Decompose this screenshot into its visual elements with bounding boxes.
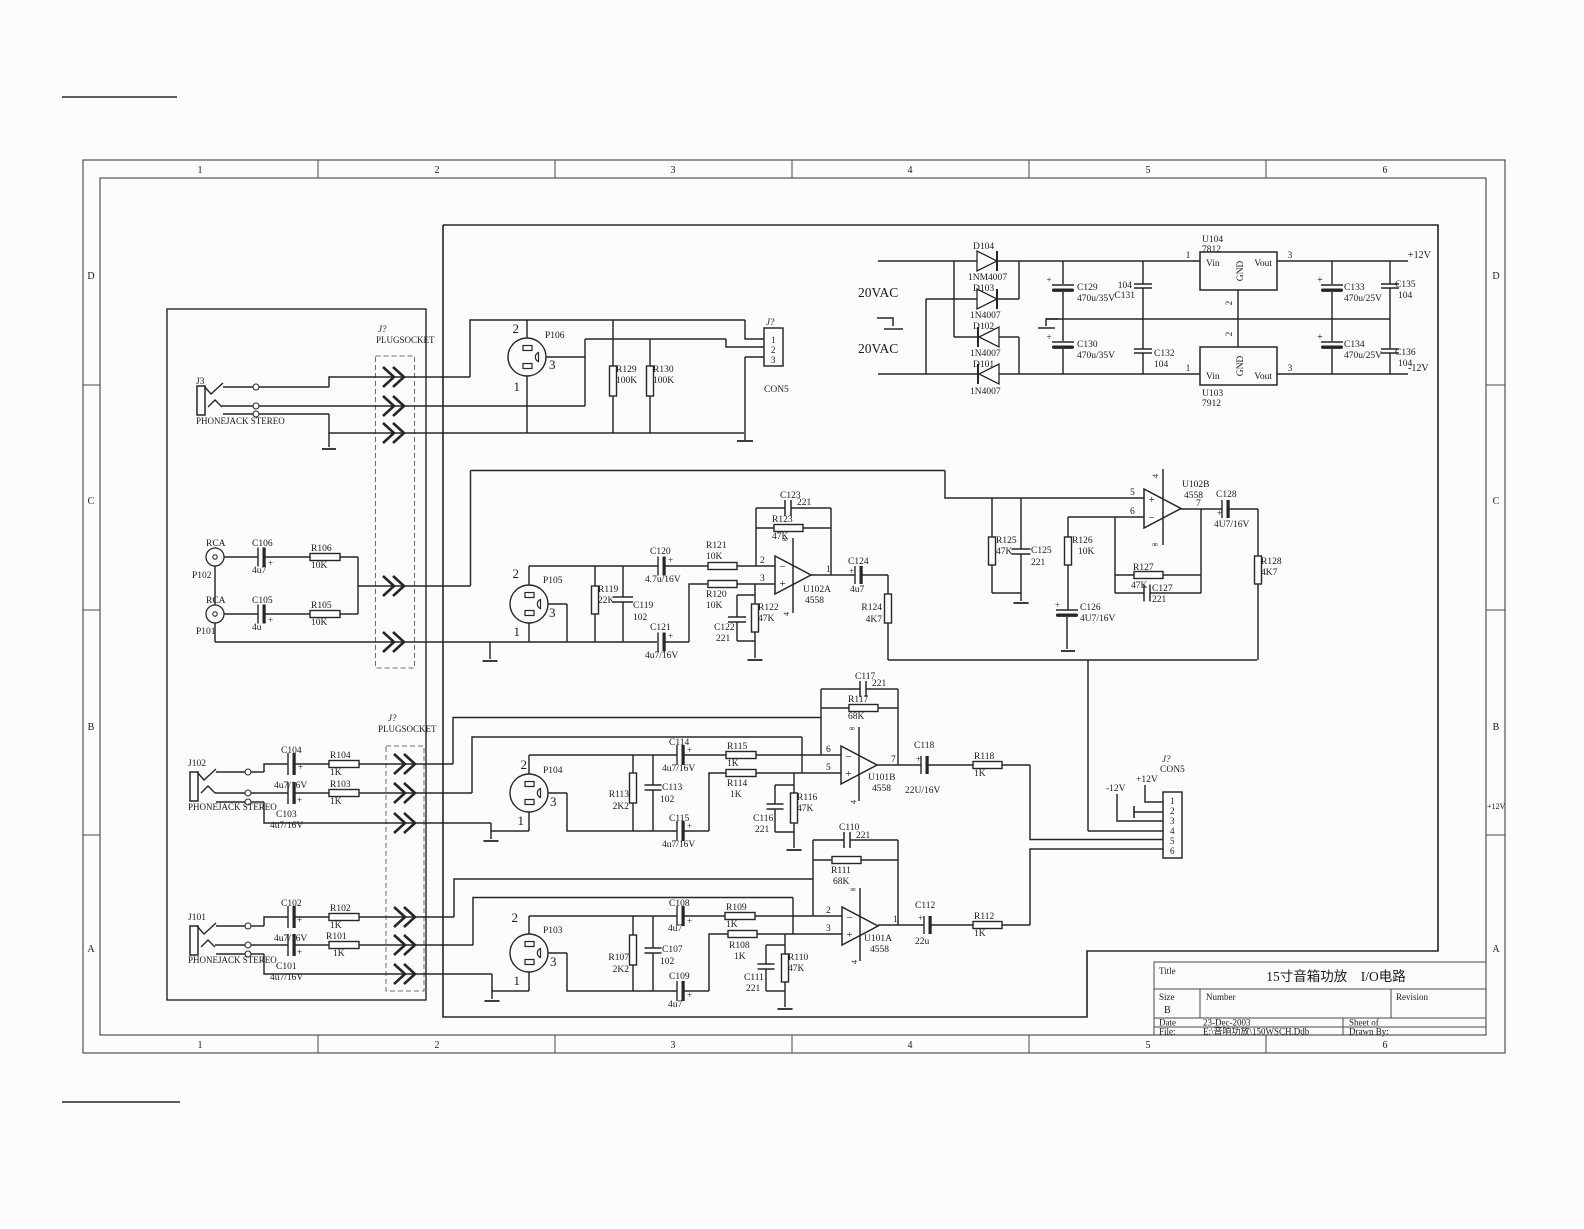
svg-text:−: −: [1149, 512, 1155, 524]
title block column divider sheet: [1342, 1018, 1344, 1035]
wire C101 to R101: [294, 944, 329, 946]
resistor R118: [973, 762, 1002, 769]
capacitor C112: [923, 916, 925, 934]
svg-text:D102: D102: [973, 322, 994, 332]
wire R109 to U101A pin2: [755, 915, 842, 917]
svg-text:104: 104: [1398, 359, 1413, 369]
svg-text:5: 5: [1146, 165, 1151, 176]
svg-text:1K: 1K: [333, 949, 345, 959]
svg-text:E:\音响功放\150WSCH.Ddb: E:\音响功放\150WSCH.Ddb: [1203, 1026, 1310, 1037]
svg-text:∞: ∞: [850, 885, 856, 894]
svg-text:4K7: 4K7: [866, 615, 883, 625]
wire U102B output down to feedback: [1200, 509, 1202, 593]
svg-text:C: C: [1493, 496, 1500, 507]
svg-text:221: 221: [746, 984, 761, 994]
wire R102 to riser: [359, 916, 454, 918]
scan artifact line bottom-left: [62, 1101, 180, 1103]
capacitor C129: [1062, 261, 1064, 284]
resistor R128: [1255, 556, 1262, 584]
svg-text:U101B: U101B: [868, 773, 895, 783]
svg-text:CON5: CON5: [1160, 765, 1185, 775]
resistor R107: [632, 916, 634, 935]
wire R125 C125 bottoms joined: [992, 592, 1021, 594]
ground below R116: [787, 849, 802, 851]
resistor R125: [991, 498, 993, 537]
svg-text:+: +: [849, 566, 854, 576]
svg-text:15寸音箱功放 I/O电路: 15寸音箱功放 I/O电路: [1266, 968, 1406, 984]
svg-text:10K: 10K: [311, 618, 328, 628]
svg-text:1N4007: 1N4007: [970, 311, 1001, 321]
U102A feedback right vertical: [830, 508, 832, 575]
diode D102: [979, 327, 999, 347]
border column tick: [791, 160, 793, 178]
svg-text:6: 6: [1130, 507, 1135, 517]
J3 ring contact: [208, 400, 222, 407]
resistor R112: [973, 922, 1002, 929]
sheet border outer frame: [83, 160, 1505, 1053]
svg-text:1: 1: [826, 565, 831, 575]
svg-text:R129: R129: [616, 365, 637, 375]
svg-text:R122: R122: [758, 603, 779, 613]
resistor R101: [329, 942, 359, 949]
ground below C125: [1020, 593, 1022, 601]
resistor R130: [649, 339, 651, 366]
wire riser J102 tip to pin6 line: [453, 718, 821, 765]
U101A feedback top line with C110: [813, 839, 844, 841]
wire R103 to riser: [359, 792, 472, 794]
wire C103 to R103: [294, 792, 329, 794]
svg-text:PLUGSOCKET: PLUGSOCKET: [378, 724, 437, 734]
svg-text:D: D: [87, 271, 94, 282]
connector P106 DIN socket: [508, 338, 546, 376]
svg-text:1: 1: [893, 915, 898, 925]
svg-text:1K: 1K: [726, 920, 738, 930]
svg-text:C106: C106: [252, 539, 273, 549]
wire C120 to R121: [664, 565, 708, 567]
svg-text:1K: 1K: [734, 952, 746, 962]
svg-text:R109: R109: [726, 903, 747, 913]
wire J3 tip riser to P106 rail: [470, 320, 745, 377]
resistor R116: [793, 773, 795, 793]
svg-text:47K: 47K: [1131, 581, 1148, 591]
svg-text:C119: C119: [633, 601, 653, 611]
op-amp U101A: [842, 907, 878, 945]
wire C128 to R128: [1228, 508, 1258, 510]
wire D102 branch from top rail: [953, 261, 955, 337]
U101B feedback top line with C117: [821, 688, 860, 690]
svg-text:10K: 10K: [1078, 547, 1095, 557]
wire J102 ring: [215, 792, 245, 794]
svg-text:R111: R111: [831, 866, 851, 876]
svg-text:C129: C129: [1077, 283, 1098, 293]
svg-text:5: 5: [1170, 836, 1175, 846]
wire C112 to R112: [930, 924, 973, 926]
wire P106 pin3: [546, 356, 585, 358]
svg-text:C107: C107: [662, 945, 683, 955]
svg-text:+: +: [268, 558, 273, 568]
svg-text:20VAC: 20VAC: [858, 341, 898, 356]
border column tick: [1265, 160, 1267, 178]
U102A feedback top line with C123: [756, 507, 785, 509]
svg-text:Vout: Vout: [1254, 372, 1272, 382]
wire bottom rail to U103: [999, 373, 1200, 375]
capacitor C120: [657, 557, 659, 576]
svg-text:2: 2: [1224, 332, 1234, 337]
wire mid ground rail: [1046, 318, 1390, 320]
svg-text:2: 2: [771, 345, 776, 355]
svg-text:470u/25V: 470u/25V: [1344, 351, 1382, 361]
svg-text:2: 2: [521, 757, 528, 772]
capacitor C119: [622, 566, 624, 597]
svg-text:1: 1: [514, 973, 521, 988]
svg-text:P106: P106: [545, 331, 565, 341]
J3 tip node circle: [253, 384, 259, 390]
svg-text:4: 4: [1151, 474, 1160, 478]
wire J101 sleeve to P103 pin1: [492, 974, 529, 991]
svg-text:C132: C132: [1154, 349, 1175, 359]
svg-text:+: +: [847, 929, 853, 941]
svg-text:−: −: [780, 561, 786, 573]
connector J102 phonejack body: [190, 772, 198, 801]
svg-text:+: +: [1055, 600, 1060, 610]
svg-text:4K7: 4K7: [1261, 568, 1278, 578]
resistor R105: [310, 611, 340, 618]
capacitor C132: [1142, 319, 1144, 349]
arrow J101 ring plugsocket: [394, 935, 405, 955]
J3 tip contact: [204, 383, 223, 394]
wire P106 pin3 riser: [584, 339, 586, 406]
svg-text:GND: GND: [1236, 261, 1246, 282]
svg-text:C109: C109: [669, 972, 690, 982]
svg-text:4558: 4558: [870, 945, 889, 955]
svg-text:RCA: RCA: [206, 596, 226, 606]
svg-text:C111: C111: [744, 973, 764, 983]
capacitor C124: [854, 566, 856, 584]
svg-text:4: 4: [850, 960, 859, 964]
op-amp U102B: [1144, 489, 1181, 528]
svg-text:J?: J?: [1162, 754, 1171, 764]
wire C108 to R109: [683, 915, 725, 917]
svg-text:221: 221: [755, 825, 770, 835]
svg-text:4: 4: [849, 800, 858, 804]
J101 tip node circle: [245, 923, 251, 929]
svg-text:221: 221: [872, 679, 887, 689]
svg-text:1K: 1K: [974, 769, 986, 779]
svg-text:+: +: [780, 578, 786, 590]
svg-text:RCA: RCA: [206, 539, 226, 549]
svg-text:4u7/16V: 4u7/16V: [662, 840, 695, 850]
svg-text:PHONEJACK STEREO: PHONEJACK STEREO: [196, 416, 285, 426]
svg-text:R117: R117: [848, 695, 868, 705]
wire input rail corner to U102B pin5: [945, 471, 1144, 499]
wire riser J102 ring to pin5 line: [472, 737, 802, 793]
J102 ring contact: [201, 786, 215, 793]
svg-text:C118: C118: [914, 741, 934, 751]
svg-text:1K: 1K: [330, 921, 342, 931]
svg-text:22K: 22K: [598, 596, 615, 606]
svg-text:+: +: [668, 555, 673, 565]
svg-text:1: 1: [1186, 363, 1191, 373]
svg-text:1NM4007: 1NM4007: [968, 273, 1007, 283]
capacitor C113: [652, 755, 654, 785]
svg-text:1: 1: [771, 335, 776, 345]
wire U102B output: [1181, 508, 1222, 510]
svg-text:102: 102: [660, 795, 675, 805]
wire CON5 pin2 stub: [1134, 811, 1163, 813]
svg-text:4u7: 4u7: [850, 585, 865, 595]
svg-text:C113: C113: [662, 783, 682, 793]
svg-text:R124: R124: [861, 603, 882, 613]
svg-text:6: 6: [1383, 165, 1388, 176]
resistor R124: [885, 594, 892, 623]
J102 sleeve node circle: [245, 799, 251, 805]
svg-text:Size: Size: [1159, 992, 1175, 1002]
svg-text:R128: R128: [1261, 557, 1282, 567]
wire output rail down to CON5 pin4: [1087, 660, 1089, 831]
resistor R115: [726, 752, 756, 759]
wire R120 to U102A pin3: [737, 583, 775, 585]
wire AC bottom rail left: [878, 373, 978, 375]
capacitor C133: [1331, 261, 1333, 284]
svg-text:Vin: Vin: [1206, 259, 1220, 269]
svg-text:3: 3: [671, 165, 676, 176]
resistor R102: [329, 914, 359, 921]
scan artifact line top-left: [62, 96, 177, 98]
svg-text:5: 5: [1130, 488, 1135, 498]
connector J3 phonejack body: [197, 386, 205, 415]
svg-text:D101: D101: [973, 360, 994, 370]
ground below R110: [778, 1008, 793, 1010]
left input section box: [167, 309, 426, 1000]
svg-text:1: 1: [198, 165, 203, 176]
svg-text:7912: 7912: [1202, 399, 1221, 409]
svg-text:J?: J?: [766, 317, 775, 327]
svg-text:3: 3: [826, 924, 831, 934]
wire P102 to C106: [224, 556, 258, 558]
wire -12V to CON5 pin3: [1117, 794, 1163, 821]
capacitor C106: [257, 548, 259, 567]
diode D103: [977, 289, 997, 309]
wire pin5 drop junction: [801, 737, 803, 773]
svg-text:U102B: U102B: [1182, 480, 1209, 490]
wire R101 to riser: [359, 944, 473, 946]
wire R105 to junction: [340, 613, 358, 615]
svg-text:Number: Number: [1206, 992, 1236, 1002]
svg-text:P104: P104: [543, 766, 563, 776]
svg-text:R116: R116: [797, 793, 817, 803]
capacitor C101: [287, 934, 289, 956]
svg-text:3: 3: [760, 574, 765, 584]
wire R126 line to U102B pin6: [1068, 516, 1144, 518]
svg-text:R123: R123: [772, 515, 793, 525]
svg-text:68K: 68K: [833, 877, 850, 887]
wire U101A output: [878, 924, 924, 926]
wire P104 pin1 drop: [528, 812, 530, 831]
svg-text:R119: R119: [598, 585, 618, 595]
wire D102 to bottom rail: [999, 336, 1019, 338]
svg-text:C104: C104: [281, 746, 302, 756]
connector P105 DIN socket: [510, 585, 548, 623]
svg-text:−: −: [846, 751, 852, 763]
svg-text:6: 6: [1383, 1040, 1388, 1051]
ground below J3 sleeve wire: [328, 433, 330, 447]
svg-text:102: 102: [633, 613, 648, 623]
svg-text:C128: C128: [1216, 490, 1237, 500]
resistor R109: [725, 913, 755, 920]
svg-text:+: +: [1046, 332, 1051, 342]
op-amp U101B: [841, 746, 877, 784]
border column tick: [554, 160, 556, 178]
svg-text:1: 1: [1170, 796, 1175, 806]
svg-text:C136: C136: [1395, 348, 1416, 358]
svg-text:4u: 4u: [252, 623, 262, 633]
wire RCA junction vertical: [357, 557, 359, 614]
svg-text:C135: C135: [1395, 280, 1416, 290]
svg-text:Revision: Revision: [1396, 992, 1429, 1002]
title block outline: [1154, 962, 1486, 1035]
svg-text:104: 104: [1398, 291, 1413, 301]
title block column divider size-number: [1199, 989, 1201, 1018]
svg-text:104: 104: [1154, 360, 1169, 370]
J101 tip contact: [197, 923, 216, 934]
U101A feedback right vertical: [897, 840, 899, 925]
svg-text:2: 2: [1224, 301, 1234, 306]
svg-text:2: 2: [512, 910, 519, 925]
svg-text:+: +: [268, 615, 273, 625]
svg-text:4u7/16V: 4u7/16V: [274, 934, 307, 944]
U102B power pin line: [1162, 469, 1164, 545]
svg-text:+: +: [297, 795, 302, 805]
svg-text:R110: R110: [788, 953, 808, 963]
svg-text:R107: R107: [608, 953, 629, 963]
svg-text:22U/16V: 22U/16V: [905, 786, 941, 796]
svg-text:U104: U104: [1202, 235, 1223, 245]
wire RCA riser to U102 input rail: [470, 471, 472, 587]
svg-text:C103: C103: [276, 810, 297, 820]
svg-text:+: +: [1046, 275, 1051, 285]
wire U103 output to -12V: [1277, 373, 1408, 375]
svg-text:R118: R118: [974, 752, 994, 762]
svg-text:+: +: [668, 631, 673, 641]
svg-text:R105: R105: [311, 601, 332, 611]
wire P105 input line to C120: [529, 565, 658, 567]
J101 sleeve node circle: [245, 951, 251, 957]
U101B feedback right vertical: [897, 689, 899, 765]
svg-text:1K: 1K: [974, 929, 986, 939]
svg-text:+: +: [687, 916, 692, 926]
svg-text:47K: 47K: [758, 614, 775, 624]
capacitor C128: [1221, 500, 1223, 518]
svg-text:47K: 47K: [797, 804, 814, 814]
svg-text:Drawn By:: Drawn By:: [1349, 1027, 1389, 1037]
svg-text:U102A: U102A: [803, 585, 831, 595]
svg-text:10K: 10K: [311, 561, 328, 571]
svg-text:+: +: [687, 745, 692, 755]
wire R128 bottom to output rail: [1257, 584, 1259, 660]
ground below R122: [748, 659, 763, 661]
U102A power pin line: [792, 538, 794, 613]
border row tick: [83, 609, 100, 611]
svg-text:4: 4: [908, 1040, 913, 1051]
wire D104 to caps: [997, 260, 1200, 262]
svg-text:C108: C108: [669, 899, 690, 909]
ground stub on rail near P105: [489, 642, 491, 659]
svg-text:C122: C122: [714, 623, 735, 633]
capacitor C125: [1020, 498, 1022, 549]
svg-text:R127: R127: [1133, 563, 1154, 573]
wire U101B output: [877, 764, 921, 766]
svg-text:R121: R121: [706, 541, 727, 551]
svg-text:7: 7: [1196, 499, 1201, 509]
border row tick: [83, 834, 100, 836]
resistor R129: [612, 320, 614, 366]
connector P101 RCA jack: [206, 605, 224, 623]
svg-text:4u7/16V: 4u7/16V: [645, 651, 678, 661]
wire P105 pin2 riser: [528, 566, 530, 585]
svg-text:470u/35V: 470u/35V: [1077, 294, 1115, 304]
svg-text:J101: J101: [188, 913, 206, 923]
wire U103 GND pin: [1237, 319, 1239, 347]
svg-text:2K2: 2K2: [613, 802, 630, 812]
svg-text:100K: 100K: [616, 376, 637, 386]
svg-text:C131: C131: [1114, 291, 1135, 301]
wire P102 shell to P101: [214, 566, 216, 605]
U101B feedback left vertical: [820, 689, 822, 755]
svg-text:1N4007: 1N4007: [970, 349, 1001, 359]
svg-text:2K2: 2K2: [613, 965, 630, 975]
svg-text:2: 2: [435, 1040, 440, 1051]
connector P102 RCA jack: [206, 548, 224, 566]
capacitor C107: [652, 916, 654, 948]
resistor R117 feedback: [821, 707, 849, 709]
resistor R122: [754, 584, 756, 604]
resistor R126: [1067, 517, 1069, 537]
wire U104 output to +12V: [1277, 260, 1408, 262]
arrow J3 tip plugsocket: [383, 367, 394, 387]
wire J3 tip: [223, 386, 253, 388]
capacitor C122 parallel stub: [736, 595, 738, 617]
svg-text:D104: D104: [973, 242, 994, 252]
wire J101 sleeve: [216, 953, 245, 955]
U101B power pin line: [858, 727, 860, 801]
svg-text:7: 7: [891, 755, 896, 765]
capacitor C105: [257, 605, 259, 624]
svg-text:R103: R103: [330, 780, 351, 790]
svg-text:3: 3: [550, 794, 557, 809]
svg-text:+: +: [918, 913, 923, 923]
svg-text:221: 221: [797, 498, 812, 508]
svg-text:2: 2: [1170, 806, 1175, 816]
svg-text:68K: 68K: [848, 712, 865, 722]
arrow J3 sleeve plugsocket: [383, 423, 394, 443]
wire P106 pin3 net to CON5 pin2: [585, 338, 726, 340]
resistor R103: [329, 790, 359, 797]
capacitor C134: [1331, 319, 1333, 341]
svg-text:4u7: 4u7: [252, 566, 267, 576]
op-amp U102A: [775, 556, 811, 594]
svg-text:221: 221: [1152, 595, 1167, 605]
svg-text:R120: R120: [706, 590, 727, 600]
svg-text:5: 5: [1146, 1040, 1151, 1051]
wire J3 ring: [222, 405, 253, 407]
svg-text:221: 221: [856, 831, 871, 841]
wire P103 input line to C108: [529, 915, 677, 917]
connector P104 DIN socket: [510, 774, 548, 812]
wire P103 pin1 drop: [528, 972, 530, 991]
svg-text:∞: ∞: [849, 724, 855, 733]
svg-text:104: 104: [1118, 281, 1133, 291]
capacitor C103: [287, 782, 289, 804]
